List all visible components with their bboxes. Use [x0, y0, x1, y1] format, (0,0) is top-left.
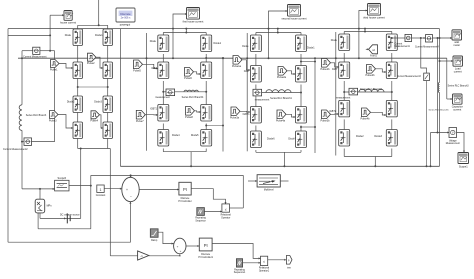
svg-text:Repeating: Repeating	[195, 217, 206, 220]
switch Diode D2	[386, 34, 397, 51]
wire left feedback vertical	[7, 29, 9, 243]
svg-text:Pulse4: Pulse4	[90, 120, 98, 123]
switch Diode D1	[339, 34, 350, 51]
scope third house current	[368, 4, 381, 16]
svg-text:Current Measurement2: Current Measurement2	[3, 148, 28, 151]
wire cellB Lcol r2-r3	[162, 81, 164, 105]
switch IGBT B5	[158, 105, 169, 122]
measurement block (cell B)	[166, 89, 175, 96]
wire	[300, 33, 302, 36]
pulse gen Pulse8	[186, 107, 195, 116]
IGBT A4	[103, 62, 113, 79]
wire scope line to MPx top	[39, 189, 41, 199]
From tag (cell D)	[369, 45, 378, 54]
wire	[343, 32, 345, 35]
svg-text:Diode7: Diode7	[288, 138, 296, 141]
pulse gen Pulse1	[51, 60, 60, 68]
svg-text:Pulse1b: Pulse1b	[320, 68, 330, 71]
wire feedback to sum1 bottom	[8, 202, 130, 243]
switch Diode C8	[296, 131, 307, 148]
switch Diode D8	[386, 130, 397, 147]
svg-text:measurement: measurement	[255, 98, 270, 101]
Diode A6	[103, 96, 113, 113]
current measurement block 2 (cell A bottom)	[24, 138, 32, 146]
wire cellB bottom rail	[163, 151, 206, 153]
wire cellB Rcol r2-r3	[205, 81, 207, 105]
wire pulse1 to A3	[59, 64, 73, 69]
pulse gen Pulse3	[50, 111, 59, 119]
svg-text:Diode1: Diode1	[95, 34, 103, 37]
voltage measurement block V2	[424, 73, 430, 81]
switch Diode C1	[250, 35, 261, 52]
DC voltage source	[66, 213, 68, 223]
svg-text:Pulse2b: Pulse2b	[365, 74, 375, 77]
svg-text:Pulse5: Pulse5	[133, 69, 141, 72]
wire cellC top rail	[256, 32, 301, 34]
wire to load scope junction	[439, 38, 441, 61]
wire cellD Rcol r2-r3	[391, 81, 393, 100]
wire cellB to AC bus	[190, 152, 192, 167]
wire cellA left col r1-r2	[77, 46, 79, 63]
svg-text:2e-006 s: 2e-006 s	[121, 16, 131, 19]
wire cellC to AC bus	[283, 152, 285, 166]
wire coil down to scope5 line	[21, 130, 23, 189]
pulse gen Pulse5	[134, 60, 143, 69]
measurement block (cell D)	[349, 88, 358, 95]
svg-text:IGBT: IGBT	[151, 67, 157, 70]
wire cellA mid tap	[78, 86, 108, 88]
sum junction 1	[122, 177, 139, 201]
wire cellA left col r3-r4	[77, 113, 79, 123]
repeating sequence 1	[197, 208, 205, 216]
svg-text:Current Measurement: Current Measurement	[23, 56, 47, 59]
svg-text:Current Measurement3: Current Measurement3	[397, 75, 421, 78]
wire scope5 out	[69, 185, 91, 187]
current measurement block CM4	[426, 35, 433, 42]
svg-text:PI: PI	[183, 187, 187, 192]
svg-text:Diode1: Diode1	[214, 42, 222, 45]
pulse gen Pulse4	[91, 111, 100, 119]
wire pulse3 to A7	[58, 115, 73, 129]
wire into load scope	[440, 60, 454, 62]
svg-text:Diode: Diode	[150, 40, 157, 43]
svg-text:PI Controller: PI Controller	[178, 200, 191, 203]
wire cellB left bus	[146, 33, 148, 151]
svg-text:Diode3: Diode3	[374, 135, 382, 138]
wire breaker out	[280, 180, 288, 182]
wire cellC Rcol r2-r3	[300, 85, 302, 107]
wire cellA right col r1-r2	[107, 46, 109, 63]
wire Pulse2a	[287, 71, 296, 74]
wire cellD mid link	[344, 91, 392, 93]
IGBT A8	[103, 122, 113, 139]
svg-text:Diode: Diode	[242, 45, 249, 48]
wire Pulse5	[143, 64, 158, 68]
wire from CM1a	[40, 50, 55, 52]
svg-text:current: current	[453, 107, 461, 111]
wire CM1 to CM4	[412, 37, 426, 39]
goto block	[286, 256, 292, 265]
wire cellA bottom rail	[78, 148, 111, 150]
switch IGBT C3	[250, 66, 261, 83]
svg-text:Series RLC Branch5: Series RLC Branch5	[429, 109, 450, 112]
inductor Series RLC Branch3	[438, 83, 439, 93]
wire cellC bottom rail	[256, 151, 301, 153]
svg-text:PI Controller1: PI Controller1	[198, 256, 213, 259]
wire to V2	[421, 38, 427, 73]
wire control feedback top	[91, 174, 244, 176]
svg-text:+: +	[180, 249, 182, 253]
svg-text:meter: meter	[453, 43, 460, 47]
pulse gen Pulse1a	[233, 56, 242, 65]
svg-text:Operator: Operator	[221, 217, 230, 220]
switch Diode B7	[158, 130, 169, 147]
wire cellC Lcol r3-r4	[255, 126, 257, 132]
svg-text:powergui: powergui	[120, 23, 131, 27]
wire cellD bottom rail	[344, 156, 392, 158]
wire MPx return down	[37, 213, 39, 229]
wire cellB Rcol r3-r4	[205, 124, 207, 130]
wire Pulse6	[194, 72, 201, 74]
scope5 block	[55, 180, 69, 191]
wire ref to sum1 top	[130, 175, 132, 177]
IGBT A3	[73, 62, 83, 79]
svg-text:Pulse1a: Pulse1a	[232, 65, 242, 68]
wire cellD top rail	[344, 31, 392, 33]
switch IGBT C6	[296, 107, 307, 124]
svg-text:Multilevel: Multilevel	[264, 189, 274, 192]
wire constant to sum1	[104, 188, 122, 190]
svg-text:Scope1: Scope1	[459, 165, 468, 169]
wire cellA right col r3-r4	[107, 113, 109, 123]
wire cellC tap upper	[301, 61, 315, 63]
svg-text:+: +	[126, 188, 128, 192]
switch Diode B1	[158, 35, 169, 52]
wire cellD left bus	[335, 32, 337, 156]
svg-text:Pulse8: Pulse8	[185, 116, 193, 119]
wire Pulse4a	[286, 114, 296, 117]
wire cellC Lcol r1-r2	[255, 54, 257, 66]
svg-text:Series RLC Branch1: Series RLC Branch1	[270, 97, 292, 100]
sum junction 2	[174, 238, 186, 254]
wire into capacitor scope	[447, 98, 453, 100]
wire cellC mid link	[256, 92, 301, 94]
wire cellA out to DC source loop	[80, 149, 82, 219]
pulse gen Pulse4a	[277, 110, 286, 119]
wire cellC left bus	[246, 33, 248, 151]
svg-text:IGBT: IGBT	[244, 70, 250, 73]
svg-text:Sequence: Sequence	[195, 221, 206, 223]
svg-text:Pulse2a: Pulse2a	[277, 76, 287, 79]
svg-text:current: current	[454, 69, 462, 73]
svg-text:1: 1	[100, 188, 102, 192]
switch Diode C7	[250, 131, 261, 148]
wire cellB top rail	[163, 32, 206, 34]
switch Diode B2	[201, 35, 212, 52]
svg-text:second house current: second house current	[282, 16, 307, 20]
wire into scope5	[22, 188, 55, 190]
wire Pulse1a	[242, 60, 250, 70]
svg-text:Ramp: Ramp	[151, 240, 158, 242]
constant block	[97, 185, 104, 192]
svg-text:Scope5: Scope5	[58, 177, 67, 180]
svg-text:Diode: Diode	[65, 34, 72, 37]
svg-text:IGBT2: IGBT2	[329, 110, 337, 113]
svg-text:Diode2: Diode2	[356, 135, 364, 138]
svg-text:Diode2: Diode2	[67, 100, 75, 103]
wire	[255, 33, 257, 36]
wire bus2 end down	[446, 58, 448, 99]
svg-text:measurement: measurement	[155, 96, 170, 99]
wire coil to AC bus	[439, 93, 441, 167]
wire PI1 to RelOp1	[191, 189, 225, 204]
svg-text:Series RLC Branch2: Series RLC Branch2	[360, 88, 382, 91]
svg-text:first house current: first house current	[183, 19, 204, 23]
wire cellD Lcol r1-r2	[343, 53, 345, 62]
Diode A5	[73, 96, 83, 113]
wire CM4 to watt scope	[433, 37, 453, 39]
wire	[205, 149, 207, 152]
wire DC bus top (+)	[8, 28, 440, 30]
wire cellA left bus	[54, 51, 56, 142]
wire gain to sum2 bottom	[149, 254, 180, 255]
wire to coil	[439, 61, 441, 83]
switch IGBT D6	[386, 100, 397, 117]
wire cellA top feed	[98, 0, 100, 25]
svg-text:Discrete: Discrete	[120, 12, 131, 16]
measurement block (cell C)	[253, 89, 262, 96]
wire	[77, 25, 79, 29]
scope house current total	[64, 11, 73, 21]
wire return bottom	[38, 228, 91, 230]
switch Diode D7	[339, 130, 350, 147]
wire relop1 to feedback	[230, 207, 244, 209]
wire bus1 end down	[439, 29, 441, 38]
wire Pulse3a	[240, 110, 250, 113]
wire cellC tap lower	[301, 126, 315, 128]
svg-text:Diode5: Diode5	[191, 134, 199, 137]
scope load current	[453, 56, 463, 66]
wire cellD Rcol r1-r2	[391, 53, 393, 62]
svg-text:MPx: MPx	[47, 205, 53, 208]
svg-text:Series RLC Branch3: Series RLC Branch3	[448, 85, 470, 88]
wire cellB mid link	[163, 91, 206, 93]
switch IGBT D4	[386, 62, 397, 79]
scope watt meter	[452, 30, 462, 40]
wire	[162, 149, 164, 152]
svg-text:V: V	[452, 131, 454, 135]
scope second house current	[288, 5, 301, 17]
svg-text:Operator1: Operator1	[259, 269, 270, 272]
wire cellD Lcol r2-r3	[343, 81, 345, 100]
wire right vertical to VM	[437, 38, 439, 133]
wire VM to scope7	[457, 133, 465, 153]
wire left branch vertical	[21, 51, 23, 105]
svg-text:Measurement1: Measurement1	[395, 45, 411, 48]
pulse gen Pulse3b	[322, 110, 331, 119]
wire Pulse8	[195, 111, 201, 112]
svg-text:Repeating: Repeating	[234, 268, 245, 271]
wire	[77, 139, 79, 149]
pulse gen Pulse6	[185, 68, 194, 77]
svg-text:Measurement: Measurement	[446, 142, 460, 145]
wire to scope3	[359, 11, 368, 59]
wire cellC top feed	[277, 29, 279, 33]
inductor Series RLC Branch (cell B)	[184, 90, 198, 92]
switch IGBT C4	[296, 66, 307, 83]
wire into VM block	[431, 132, 450, 134]
IGBT/Diode A2	[103, 29, 113, 46]
svg-text:-1: -1	[140, 254, 143, 258]
pulse gen Pulse4b	[362, 108, 371, 117]
switch IGBT D3	[339, 62, 350, 79]
wire to voltmeter scope	[50, 14, 64, 16]
wire cellC Rcol r3-r4	[300, 126, 302, 132]
wire to gain	[110, 255, 137, 257]
pulse gen Pulse3a	[231, 107, 240, 116]
wire cellB Rcol r1-r2	[205, 54, 207, 62]
scope output voltage	[458, 153, 469, 164]
wire	[107, 139, 109, 149]
svg-text:−: −	[130, 195, 132, 199]
gain block	[138, 251, 149, 260]
wire From tag	[366, 48, 369, 50]
wire	[391, 32, 393, 35]
wire stub to CM2	[22, 141, 24, 143]
wire left bus to CM2	[32, 141, 55, 143]
PI controller 2	[199, 238, 212, 251]
wire	[391, 149, 393, 157]
pulse gen Pulse2a	[278, 67, 287, 76]
wire to scope1	[173, 14, 187, 58]
svg-text:IGBT1: IGBT1	[243, 113, 251, 116]
wire PI2 to relop2	[212, 244, 260, 259]
svg-text:Diode3: Diode3	[94, 100, 102, 103]
svg-text:Pulse4a: Pulse4a	[276, 119, 286, 122]
switch IGBT C5	[250, 107, 261, 124]
pulse gen Pulse2	[88, 53, 97, 61]
inductor Series RLC Branch (cell C)	[266, 90, 291, 93]
wire sum2 to PI2	[186, 245, 199, 247]
wire	[343, 149, 345, 157]
svg-text:Pulse7: Pulse7	[136, 120, 144, 123]
inductor Series RLC Branch (cell D)	[359, 89, 384, 92]
wire cellB right bus	[222, 58, 224, 151]
svg-text:Diode4: Diode4	[172, 134, 180, 137]
svg-text:Voltage: Voltage	[449, 139, 457, 142]
relational operator 2	[261, 256, 268, 265]
pulse gen Pulse7	[136, 110, 145, 119]
wire MPx bottom	[39, 213, 41, 219]
wire cellD top feed	[364, 29, 366, 32]
wire cellD to CM blocks	[392, 37, 405, 39]
switch IGBT B4	[201, 62, 212, 79]
wire to scope2	[269, 11, 288, 58]
svg-text:Current Measurement4: Current Measurement4	[415, 45, 439, 48]
wire AC series bus	[120, 165, 439, 167]
wire to CM1a	[22, 50, 33, 52]
svg-text:Diode: Diode	[331, 39, 338, 42]
pulse gen Pulse2b	[367, 65, 376, 74]
ramp block	[150, 229, 158, 238]
svg-text:Pulse2: Pulse2	[87, 62, 95, 65]
wire cellD Rcol r3-r4	[391, 119, 393, 129]
wire control box right side	[242, 175, 244, 208]
svg-text:measurement: measurement	[336, 97, 351, 100]
svg-text:Relational: Relational	[221, 214, 232, 217]
wire top-left horizontal	[8, 34, 50, 36]
svg-text:IGBT1: IGBT1	[150, 107, 158, 110]
wire cellC Rcol r1-r2	[300, 54, 302, 66]
wire VM line to AC bus	[430, 133, 432, 167]
svg-text:Pulse4b: Pulse4b	[360, 117, 370, 120]
breaker block	[257, 175, 280, 187]
relational operator 1	[222, 204, 230, 212]
svg-text:Series RLC Branch: Series RLC Branch	[26, 114, 47, 117]
svg-text:≤: ≤	[225, 208, 227, 212]
wire V2 down to AC bus	[426, 81, 428, 167]
wire cellC right bus	[314, 58, 316, 153]
powergui block	[116, 8, 135, 22]
svg-text:Pulse6: Pulse6	[184, 77, 192, 80]
scope first house current	[187, 8, 200, 20]
scope capacitor current	[453, 94, 463, 104]
wire	[162, 33, 164, 36]
wire	[107, 25, 109, 29]
wire left AC feed vertical	[119, 29, 121, 167]
multilevel bridge block MPx	[35, 199, 45, 213]
wire	[255, 150, 257, 152]
svg-text:Pulse3: Pulse3	[49, 119, 57, 122]
wire pulse4 to A8	[100, 115, 104, 128]
wire cellC Lcol r2-r3	[255, 85, 257, 107]
wire cellA top rail	[78, 24, 108, 26]
wire into breaker	[248, 180, 257, 182]
PI controller 1	[179, 182, 191, 195]
wire cellD Lcol r3-r4	[343, 119, 345, 129]
svg-text:Series RLC Branch4: Series RLC Branch4	[182, 96, 204, 99]
wire repseq1 to relop1	[204, 211, 222, 213]
wire Pulse1b	[331, 63, 339, 67]
wire Pulse3b	[331, 113, 339, 115]
wire relop2 to goto	[268, 259, 287, 261]
pulse gen Pulse1b	[322, 59, 331, 68]
wire voltmeter scope drop	[49, 15, 51, 35]
svg-text:house current: house current	[60, 21, 76, 25]
wire pulse2 to A4	[96, 57, 103, 68]
wire Pulse7	[145, 114, 158, 116]
svg-text:third house current: third house current	[363, 15, 385, 19]
wire	[205, 33, 207, 36]
switch IGBT B3	[158, 62, 169, 79]
wire scope drop to CM line	[49, 35, 51, 50]
svg-text:Relational: Relational	[259, 267, 270, 270]
svg-text:From1: From1	[370, 55, 377, 58]
wire repseq2 to relop2	[243, 262, 261, 264]
svg-text:+: +	[177, 244, 179, 248]
svg-text:PI: PI	[204, 243, 208, 248]
svg-text:tem: tem	[287, 267, 291, 270]
current measurement block CM1	[405, 34, 412, 41]
wire cellA right col r2-r3	[107, 79, 109, 97]
wire cellB top feed	[185, 29, 187, 33]
svg-text:Pulse3b: Pulse3b	[320, 119, 330, 122]
switch Diode B8	[201, 130, 212, 147]
wire cellB tap lower	[206, 125, 223, 127]
wire DC source link	[40, 217, 81, 219]
inductor Series RLC Branch (cell A)	[19, 105, 22, 131]
svg-text:Pulse1: Pulse1	[50, 68, 58, 71]
